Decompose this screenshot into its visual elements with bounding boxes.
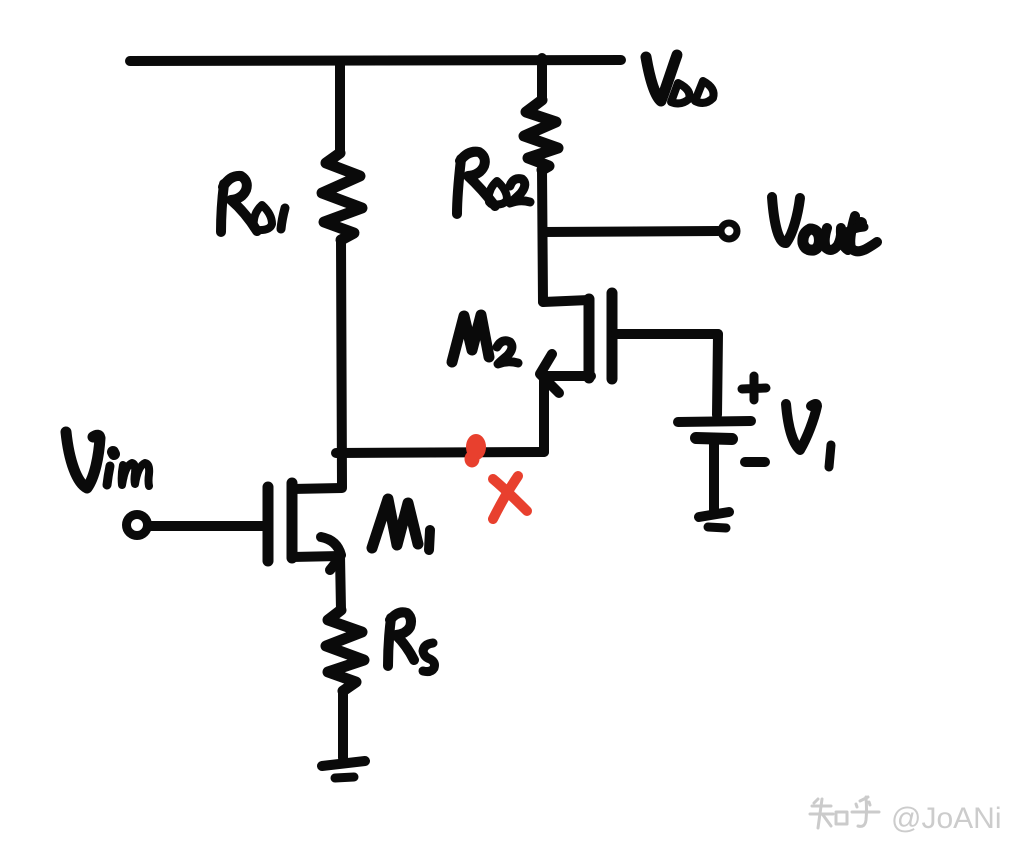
transistor M1 channel bar (287, 483, 298, 558)
transistor M2 source lead (545, 371, 591, 381)
battery plus sign (742, 376, 766, 400)
node X red dot (466, 436, 484, 466)
label Vin (66, 432, 149, 488)
node X red X label (493, 476, 527, 519)
transistor M1 source lead (292, 556, 340, 557)
resistor RS (326, 610, 364, 691)
wire RD1 bottom to M1 drain (341, 240, 342, 487)
resistor RD2 (524, 100, 558, 170)
transistor M2 source arrow (540, 354, 559, 393)
watermark (891, 802, 1001, 835)
wire M1 source to RS (340, 556, 341, 610)
transistor M2 channel bar (584, 299, 595, 378)
label VDD (646, 55, 714, 103)
resistor RD1 (322, 153, 362, 240)
terminal Vin circle (127, 515, 148, 536)
ground below battery (699, 512, 729, 517)
ground below RS (322, 761, 365, 766)
wire VDD rail (130, 60, 621, 61)
transistor M2 gate bar (607, 293, 618, 379)
wire RD2 bottom through Vout junction to M2 (542, 170, 543, 302)
battery minus sign (745, 457, 765, 467)
label M2 (452, 315, 518, 364)
label RS (388, 612, 435, 671)
label V1 (786, 404, 831, 467)
label RD1 (221, 176, 285, 232)
terminal Vout circle (721, 223, 737, 239)
wire RS to ground (338, 691, 348, 758)
transistor M1 drain jog (292, 488, 342, 489)
transistor M1 gate lead wire (150, 521, 266, 531)
label M1 (372, 499, 430, 550)
wire Vout horizontal (543, 231, 718, 232)
wire battery to ground (709, 440, 719, 511)
wire RD1 drop from rail (335, 62, 345, 153)
transistor M2 drain jog (543, 300, 589, 302)
transistor M1 gate bar (263, 487, 274, 561)
svg-text:@JoANi: @JoANi (891, 802, 1001, 835)
battery V1 plate long (678, 421, 751, 422)
label RD2 (457, 152, 530, 214)
wire gate lead down to battery (717, 334, 718, 415)
transistor M1 source arrow (321, 537, 341, 570)
wire M2 source down to node X (539, 376, 549, 452)
battery V1 plate short (696, 438, 732, 439)
label Vout (772, 197, 877, 251)
wire RD2 drop from rail (537, 58, 547, 100)
wire node X horizontal (336, 452, 544, 453)
wire M2 gate lead (616, 329, 718, 339)
